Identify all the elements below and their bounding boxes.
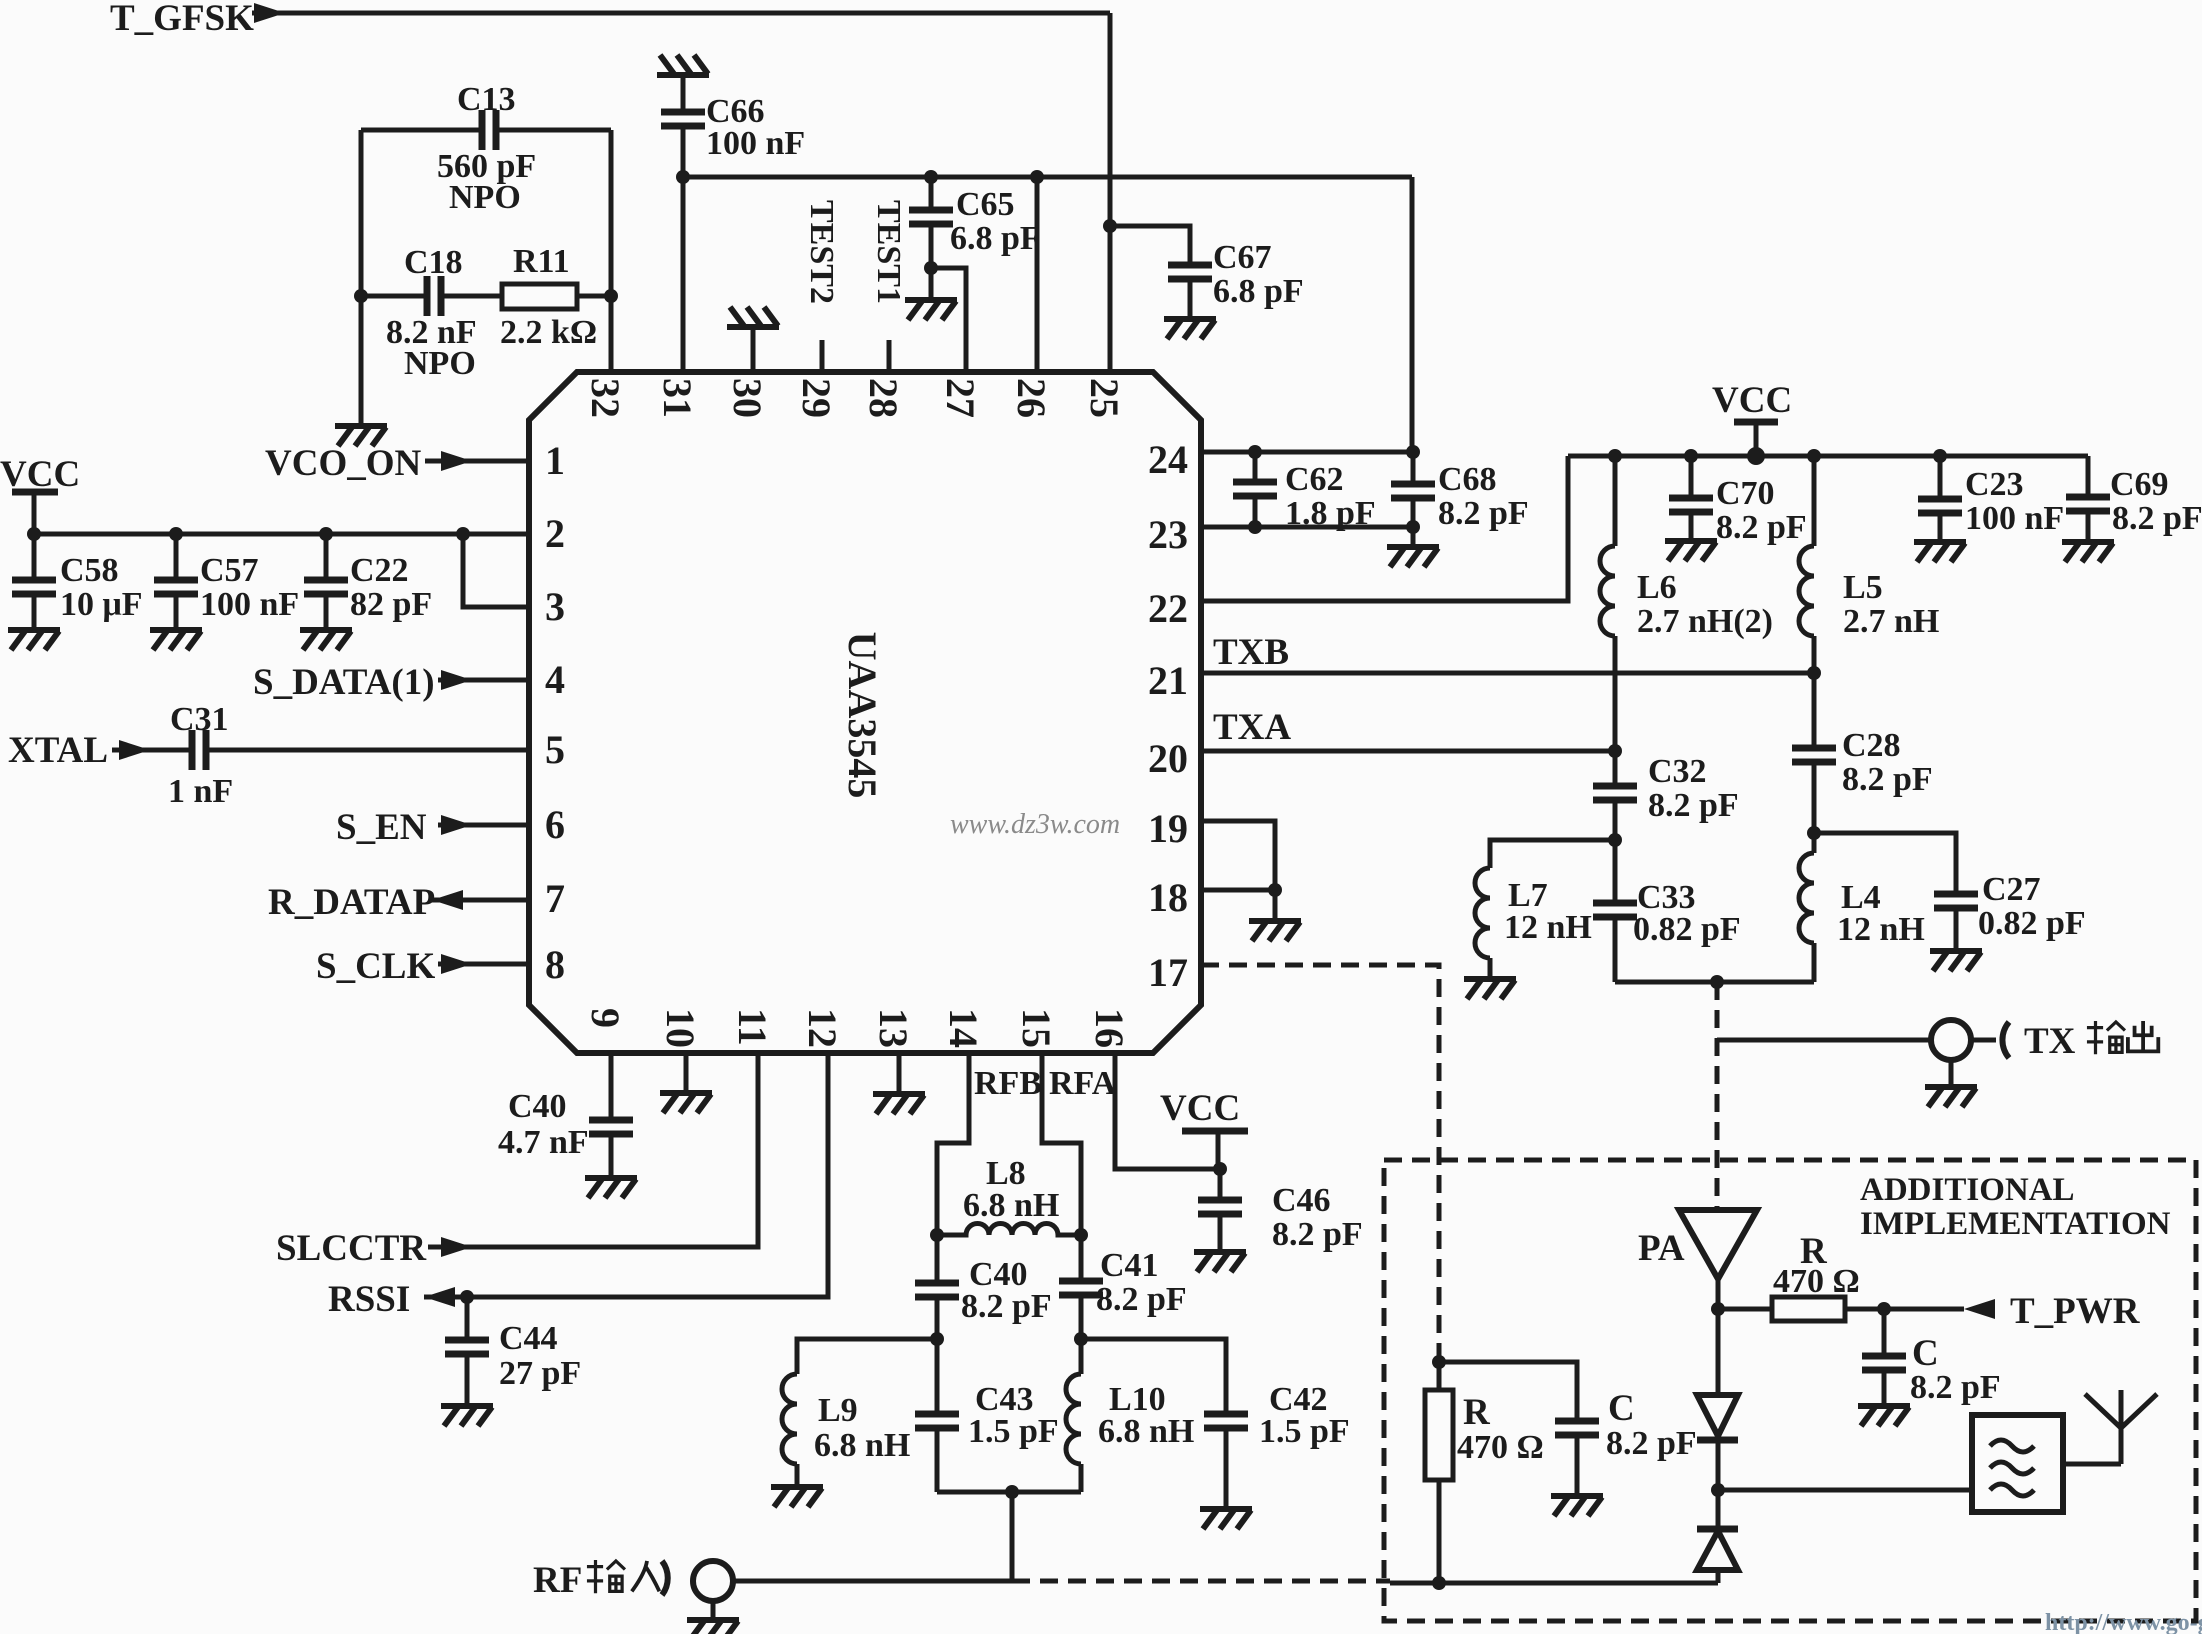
- wire C43 stems: [935, 1339, 940, 1492]
- svg-text:31: 31: [655, 378, 700, 418]
- svg-text:R11: R11: [513, 243, 570, 280]
- svg-text:470 Ω: 470 Ω: [1773, 1263, 1860, 1300]
- arrow RSSI: [424, 1287, 455, 1307]
- capacitor C22: [304, 580, 348, 594]
- wire L10 bottom stem: [1079, 1464, 1084, 1492]
- svg-text:25: 25: [1082, 378, 1127, 418]
- svg-text:C46: C46: [1272, 1182, 1331, 1219]
- wire filter to antenna: [2063, 1462, 2121, 1467]
- wire L5 bottom to TXB node: [1812, 636, 1817, 673]
- junction loop left node: [354, 289, 368, 303]
- svg-text:TEST2: TEST2: [803, 200, 840, 304]
- junction C68 bottom node: [1406, 520, 1420, 534]
- ground (L9 ground): [771, 1487, 823, 1507]
- svg-text:C68: C68: [1438, 461, 1497, 498]
- svg-text:4.7 nF: 4.7 nF: [498, 1124, 589, 1161]
- capacitor C27: [1934, 894, 1978, 908]
- junction TXB-L5 node: [1807, 666, 1821, 680]
- junction pin17 node: [1432, 1355, 1446, 1369]
- capacitor C28: [1792, 748, 1836, 762]
- inductor L7 12nH: [1475, 868, 1490, 958]
- wire C67 ground stem: [1188, 279, 1193, 319]
- wire TX connector ground stem: [1949, 1060, 1954, 1087]
- svg-text:29: 29: [794, 378, 839, 418]
- wire C44 stems: [465, 1297, 470, 1406]
- capacitor C57: [154, 580, 198, 594]
- wire L5 top stem: [1812, 456, 1817, 546]
- svg-text:UAA3545: UAA3545: [840, 632, 885, 799]
- svg-text:T_GFSK: T_GFSK: [110, 0, 254, 39]
- wire pin 4: [438, 678, 529, 683]
- svg-text:18: 18: [1148, 875, 1188, 920]
- svg-text:5: 5: [545, 727, 565, 772]
- wire pin 1: [425, 459, 529, 464]
- ground (C42 ground): [1200, 1509, 1252, 1529]
- glyph shu (output): [2087, 1021, 2125, 1054]
- wire T_GFSK horizontal: [252, 11, 1110, 16]
- ground (C70 ground): [1665, 541, 1717, 561]
- ground (TX connector ground): [1925, 1087, 1977, 1107]
- wire loop right vertical to pin 32: [609, 130, 614, 372]
- wire pin 21 TXB: [1201, 671, 1814, 676]
- svg-text:9: 9: [583, 1008, 628, 1028]
- wire pins 19-18 link: [1201, 821, 1275, 890]
- junction TX tap node: [1710, 975, 1724, 989]
- capacitor C42: [1204, 1414, 1248, 1428]
- svg-text:C62: C62: [1285, 461, 1344, 498]
- inductor L4 12nH: [1799, 853, 1814, 943]
- inductor L9 6.8nH: [782, 1374, 797, 1464]
- ground (C66 top ground): [657, 55, 709, 75]
- wire C40b stems: [935, 1235, 940, 1339]
- capacitor C66: [661, 112, 705, 126]
- svg-text:22: 22: [1148, 586, 1188, 631]
- wire RF drop: [1010, 1492, 1015, 1581]
- capacitor C43: [915, 1414, 959, 1428]
- diode D2: [1716, 1490, 1721, 1529]
- wire RF input line: [733, 1579, 1012, 1584]
- svg-text:TXB: TXB: [1213, 632, 1289, 673]
- svg-text:12 nH: 12 nH: [1837, 911, 1925, 948]
- wire C18 row: [361, 294, 611, 299]
- wire pin 6: [438, 823, 529, 828]
- wire C70 stem: [1689, 456, 1694, 541]
- wire C27 branch: [1814, 833, 1956, 894]
- svg-text:NPO: NPO: [449, 179, 521, 216]
- svg-text:XTAL: XTAL: [8, 730, 108, 771]
- wire C65 ground stem: [929, 268, 934, 300]
- wire pin 9 stem: [609, 1053, 614, 1178]
- wire pin 14 RFB route: [937, 1053, 969, 1235]
- wire pin 16 VCC link: [1115, 1053, 1220, 1169]
- svg-text:RSSI: RSSI: [328, 1279, 410, 1320]
- svg-text:2.7 nH: 2.7 nH: [1843, 603, 1939, 640]
- svg-text:28: 28: [861, 378, 906, 418]
- junction C46 top node: [1213, 1162, 1227, 1176]
- svg-text:8.2 pF: 8.2 pF: [1272, 1216, 1363, 1253]
- wire PA to node: [1716, 1279, 1721, 1309]
- svg-text:L9: L9: [818, 1392, 858, 1429]
- arrow XTAL: [119, 740, 150, 760]
- capacitor C40 8.2pF: [915, 1283, 959, 1297]
- junction C68 top node: [1406, 445, 1420, 459]
- capacitor C32: [1593, 786, 1637, 800]
- wire pin 13 stub: [897, 1053, 902, 1094]
- capacitor C 8.2pF right: [1862, 1356, 1906, 1370]
- svg-text:2.2 kΩ: 2.2 kΩ: [500, 314, 597, 351]
- wire pin 24: [1201, 450, 1413, 455]
- capacitor C13: [482, 110, 496, 150]
- svg-text:R_DATAP: R_DATAP: [268, 882, 435, 923]
- junction pin26 rail node: [1030, 170, 1044, 184]
- wire to filter: [1718, 1488, 1972, 1493]
- ground (C58 ground): [8, 630, 60, 650]
- capacitor C 8.2pF left: [1555, 1421, 1599, 1435]
- svg-text:TXA: TXA: [1213, 707, 1291, 748]
- svg-text:21: 21: [1148, 658, 1188, 703]
- filter FL1: [1972, 1415, 2063, 1512]
- arrow T_PWR: [1964, 1299, 1995, 1319]
- wire C42 ground stem: [1224, 1428, 1229, 1509]
- svg-text:100 nF: 100 nF: [1965, 500, 2064, 537]
- inductor L6 2.7nH(2): [1600, 546, 1615, 636]
- svg-text:6.8 pF: 6.8 pF: [1213, 273, 1304, 310]
- svg-text:2.7 nH(2): 2.7 nH(2): [1637, 603, 1773, 640]
- svg-text:C58: C58: [60, 552, 119, 589]
- svg-text:4: 4: [545, 657, 565, 702]
- capacitor C68: [1391, 484, 1435, 498]
- capacitor C31: [192, 730, 206, 770]
- wire T_GFSK vertical to pin 25: [1108, 13, 1113, 372]
- svg-text:1.8 pF: 1.8 pF: [1285, 495, 1376, 532]
- wire L6 bottom to TXA node: [1613, 636, 1618, 751]
- svg-text:L5: L5: [1843, 569, 1883, 606]
- junction L6 top node: [1608, 449, 1622, 463]
- wire pin 26: [1035, 177, 1040, 372]
- svg-text:8.2 pF: 8.2 pF: [1842, 761, 1933, 798]
- wire TEST1 stub pin 28: [887, 340, 892, 372]
- wire C66 stem: [681, 75, 686, 372]
- svg-text:NPO: NPO: [404, 345, 476, 382]
- svg-text:15: 15: [1014, 1008, 1059, 1048]
- svg-text:L6: L6: [1637, 569, 1677, 606]
- svg-text:27: 27: [938, 378, 983, 418]
- svg-text:RF: RF: [533, 1560, 582, 1601]
- svg-text:RFB: RFB: [974, 1065, 1042, 1102]
- capacitor C58: [12, 580, 56, 594]
- junction C32-C33 node: [1608, 833, 1622, 847]
- svg-text:C57: C57: [200, 552, 259, 589]
- IC U1 UAA3545 outline: [529, 372, 1201, 1053]
- capacitor C67: [1168, 265, 1212, 279]
- capacitor C33: [1593, 903, 1637, 917]
- glyph chu: [2128, 1021, 2158, 1051]
- wire L4 bottom stem: [1812, 943, 1817, 982]
- wire pin 7: [432, 898, 529, 903]
- svg-text:C18: C18: [404, 244, 463, 281]
- wire C left link: [1439, 1362, 1577, 1496]
- svg-text:R: R: [1463, 1392, 1491, 1433]
- ground (C57 ground): [150, 630, 202, 650]
- ground (C65 ground): [905, 300, 957, 320]
- ground (C46 ground): [1194, 1252, 1246, 1272]
- junction L8 right node: [1074, 1228, 1088, 1242]
- resistor R 470 left: [1437, 1362, 1442, 1583]
- wire VCC rail pin2: [34, 532, 529, 537]
- svg-text:www.dz3w.com: www.dz3w.com: [950, 809, 1120, 840]
- svg-text:30: 30: [725, 378, 770, 418]
- svg-text:8.2 pF: 8.2 pF: [1716, 509, 1807, 546]
- wire L7 ground stem: [1488, 958, 1493, 979]
- svg-text:23: 23: [1148, 512, 1188, 557]
- svg-text:C41: C41: [1100, 1247, 1159, 1284]
- capacitor C41: [1059, 1281, 1103, 1295]
- wire pin 8: [438, 962, 529, 967]
- ground (C27 ground): [1930, 951, 1982, 971]
- wire L9 link: [797, 1339, 937, 1374]
- svg-text:C23: C23: [1965, 466, 2024, 503]
- svg-text:0.82 pF: 0.82 pF: [1633, 911, 1741, 948]
- connector RF input: [662, 1561, 668, 1595]
- svg-text:C22: C22: [350, 552, 409, 589]
- svg-text:RFA: RFA: [1049, 1065, 1117, 1102]
- wire pin 11 SLCCTR: [428, 1053, 758, 1247]
- svg-text:ADDITIONAL: ADDITIONAL: [1860, 1172, 2075, 1208]
- svg-text:8.2 pF: 8.2 pF: [1648, 787, 1739, 824]
- ground (C40a ground): [585, 1178, 637, 1198]
- antenna: [2085, 1390, 2157, 1464]
- svg-text:http://www.go-gddq.com: http://www.go-gddq.com: [2045, 1610, 2202, 1634]
- svg-text:20: 20: [1148, 736, 1188, 781]
- glyph ru: [632, 1561, 660, 1591]
- junction C66 rail node: [676, 170, 690, 184]
- svg-text:S_DATA(1): S_DATA(1): [253, 662, 435, 703]
- svg-text:17: 17: [1148, 950, 1188, 995]
- capacitor C70: [1669, 498, 1713, 512]
- junction T_PWR node: [1877, 1302, 1891, 1316]
- wire TEST2 stub pin 29: [820, 340, 825, 372]
- svg-text:C28: C28: [1842, 727, 1901, 764]
- svg-text:10: 10: [658, 1008, 703, 1048]
- svg-text:1 nF: 1 nF: [168, 773, 233, 810]
- svg-text:3: 3: [545, 584, 565, 629]
- wire RF input dashed continuation: [1012, 1579, 1390, 1584]
- ground (C68 ground): [1387, 547, 1439, 567]
- svg-text:8.2 pF: 8.2 pF: [1438, 495, 1529, 532]
- wire pin 22 riser: [1201, 456, 1568, 601]
- junction TXA-C32 node: [1608, 744, 1622, 758]
- wire C32 stems: [1613, 751, 1618, 840]
- svg-text:6.8 nH: 6.8 nH: [1098, 1413, 1194, 1450]
- svg-text:T_PWR: T_PWR: [2010, 1291, 2141, 1332]
- wire C46 stems: [1218, 1169, 1223, 1252]
- svg-text:C70: C70: [1716, 475, 1775, 512]
- wire C57 stems: [174, 534, 179, 630]
- junction rail node C57: [169, 527, 183, 541]
- wire C68 stems: [1411, 452, 1416, 527]
- wire RF bottom rail: [937, 1490, 1081, 1495]
- wire C42 link: [1081, 1339, 1226, 1414]
- wire loop left vertical: [359, 130, 364, 426]
- svg-text:100 nF: 100 nF: [706, 125, 805, 162]
- svg-text:10 μF: 10 μF: [60, 586, 143, 623]
- capacitor C46: [1198, 1200, 1242, 1214]
- ground (loop ground): [335, 426, 387, 446]
- junction rail node pin3 jog: [456, 527, 470, 541]
- glyph shu (input): [587, 1560, 625, 1593]
- wire C67 branch: [1110, 226, 1190, 265]
- wire C65 stem: [929, 177, 934, 268]
- arrow S_EN: [441, 815, 472, 835]
- svg-text:0.82 pF: 0.82 pF: [1978, 905, 2086, 942]
- wire pin 10 stub: [684, 1053, 689, 1093]
- wire pin 12 RSSI: [424, 1053, 828, 1297]
- wire C68 ground stem: [1411, 527, 1416, 547]
- wire C23 stem: [1938, 456, 1943, 542]
- svg-text:12: 12: [800, 1008, 845, 1048]
- ground (C23 ground): [1914, 542, 1966, 562]
- svg-text:6: 6: [545, 802, 565, 847]
- junction RSSI-C44 node: [460, 1290, 474, 1304]
- wire C33 stems: [1613, 840, 1618, 982]
- svg-text:C32: C32: [1648, 753, 1707, 790]
- svg-text:VCO_ON: VCO_ON: [265, 443, 422, 484]
- wire resonator bottom rail: [1615, 980, 1814, 985]
- svg-text:14: 14: [941, 1008, 986, 1048]
- arrow S_CLK: [441, 954, 472, 974]
- resistor R 470 top: [1718, 1307, 1964, 1312]
- svg-text:1.5 pF: 1.5 pF: [968, 1413, 1059, 1450]
- ground (pin13 ground): [873, 1094, 925, 1114]
- ground (C22 ground): [300, 630, 352, 650]
- svg-text:1: 1: [545, 438, 565, 483]
- wire C41 stems: [1079, 1235, 1084, 1339]
- connector TX output: [1931, 1020, 1971, 1060]
- junction C65 top node: [924, 170, 938, 184]
- junction PA output node: [1711, 1302, 1725, 1316]
- svg-text:82 pF: 82 pF: [350, 586, 432, 623]
- wire pin 23: [1201, 525, 1413, 530]
- arrow T_GFSK into wire: [254, 3, 285, 23]
- wire L4 stem: [1812, 833, 1817, 853]
- arrow SLCCTR: [441, 1237, 472, 1257]
- diode D1: [1716, 1309, 1721, 1395]
- svg-text:C27: C27: [1982, 871, 2041, 908]
- inductor L10 6.8nH: [1066, 1374, 1081, 1464]
- wire pin 20 TXA: [1201, 749, 1615, 754]
- wire L7 top link: [1490, 840, 1615, 868]
- svg-text:470 Ω: 470 Ω: [1457, 1429, 1544, 1466]
- svg-text:6.8 nH: 6.8 nH: [814, 1427, 910, 1464]
- arrow S_DATA: [441, 670, 472, 690]
- junction L5 top node: [1807, 449, 1821, 463]
- svg-text:C31: C31: [170, 701, 229, 738]
- wire rail riser to pin24 row: [1410, 177, 1415, 452]
- svg-text:8.2 pF: 8.2 pF: [961, 1288, 1052, 1325]
- wire C right stems: [1882, 1309, 1887, 1406]
- svg-text:6.8 nH: 6.8 nH: [963, 1187, 1059, 1224]
- wire pin 15 RFA route: [1042, 1053, 1081, 1235]
- junction C62 bottom node: [1248, 520, 1262, 534]
- ground (C44 ground): [441, 1406, 493, 1426]
- svg-text:SLCCTR: SLCCTR: [276, 1228, 427, 1269]
- svg-text:VCC: VCC: [1712, 380, 1792, 421]
- junction rail node C58: [27, 527, 41, 541]
- ground (C67 ground): [1164, 319, 1216, 339]
- svg-text:PA: PA: [1638, 1228, 1685, 1269]
- ground (C69 ground): [2062, 542, 2114, 562]
- svg-text:VCC: VCC: [1160, 1088, 1240, 1129]
- junction rail node C22: [319, 527, 333, 541]
- svg-text:C44: C44: [499, 1320, 558, 1357]
- svg-text:6.8 pF: 6.8 pF: [950, 220, 1041, 257]
- wire C22 stems: [324, 534, 329, 630]
- svg-text:C69: C69: [2110, 466, 2169, 503]
- svg-text:7: 7: [545, 876, 565, 921]
- junction C62 top node: [1248, 445, 1262, 459]
- junction C23 top node: [1933, 449, 1947, 463]
- wire VCC rail right: [1568, 454, 2088, 459]
- svg-text:TEST1: TEST1: [870, 200, 907, 304]
- svg-text:24: 24: [1148, 437, 1188, 482]
- wire L6 top stem: [1613, 456, 1618, 546]
- svg-text:IMPLEMENTATION: IMPLEMENTATION: [1860, 1206, 2171, 1242]
- svg-text:11: 11: [730, 1008, 775, 1046]
- inductor L8 6.8nH: [937, 1224, 1081, 1236]
- capacitor C65: [909, 210, 953, 224]
- junction R left bottom node: [1432, 1576, 1446, 1590]
- arrow VCO_ON: [441, 451, 472, 471]
- capacitor C62: [1233, 482, 1277, 496]
- ground (pin10 ground): [660, 1093, 712, 1113]
- amplifier PA: [1679, 1210, 1757, 1279]
- svg-text:C: C: [1608, 1388, 1635, 1429]
- wire C28 stems: [1812, 673, 1817, 833]
- svg-text:16: 16: [1087, 1008, 1132, 1048]
- junction C28-L4 node: [1807, 826, 1821, 840]
- wire pin 3 jog: [463, 534, 529, 607]
- junction loop right node: [604, 289, 618, 303]
- resistor R11: [502, 284, 577, 309]
- wire RF connector ground stem: [711, 1601, 716, 1620]
- wire TX dashed drop: [1715, 982, 1720, 1210]
- wire C58 stems: [32, 534, 37, 630]
- svg-text:8: 8: [545, 942, 565, 987]
- svg-text:26: 26: [1009, 378, 1054, 418]
- wire top rail y177: [683, 175, 1412, 180]
- wire L10 stem: [1079, 1339, 1084, 1374]
- svg-text:S_EN: S_EN: [336, 807, 427, 848]
- wire pin 5 XTAL: [112, 748, 529, 753]
- svg-text:TX: TX: [2024, 1021, 2076, 1062]
- svg-text:2: 2: [545, 511, 565, 556]
- svg-text:C40: C40: [508, 1088, 567, 1125]
- svg-text:C13: C13: [457, 81, 516, 118]
- ground (L7 ground): [1464, 979, 1516, 999]
- wire pin 17 dashed: [1201, 965, 1439, 1362]
- svg-text:C: C: [1912, 1333, 1939, 1374]
- wire C62 stems: [1253, 452, 1258, 527]
- svg-text:27 pF: 27 pF: [499, 1355, 581, 1392]
- svg-text:32: 32: [583, 378, 628, 418]
- junction VCC rail node: [1747, 447, 1765, 465]
- ground (C left ground): [1551, 1496, 1603, 1516]
- svg-text:19: 19: [1148, 806, 1188, 851]
- capacitor C69: [2066, 497, 2110, 511]
- svg-text:S_CLK: S_CLK: [316, 946, 435, 987]
- junction L10 top node: [1074, 1332, 1088, 1346]
- junction RF tap node: [1005, 1485, 1019, 1499]
